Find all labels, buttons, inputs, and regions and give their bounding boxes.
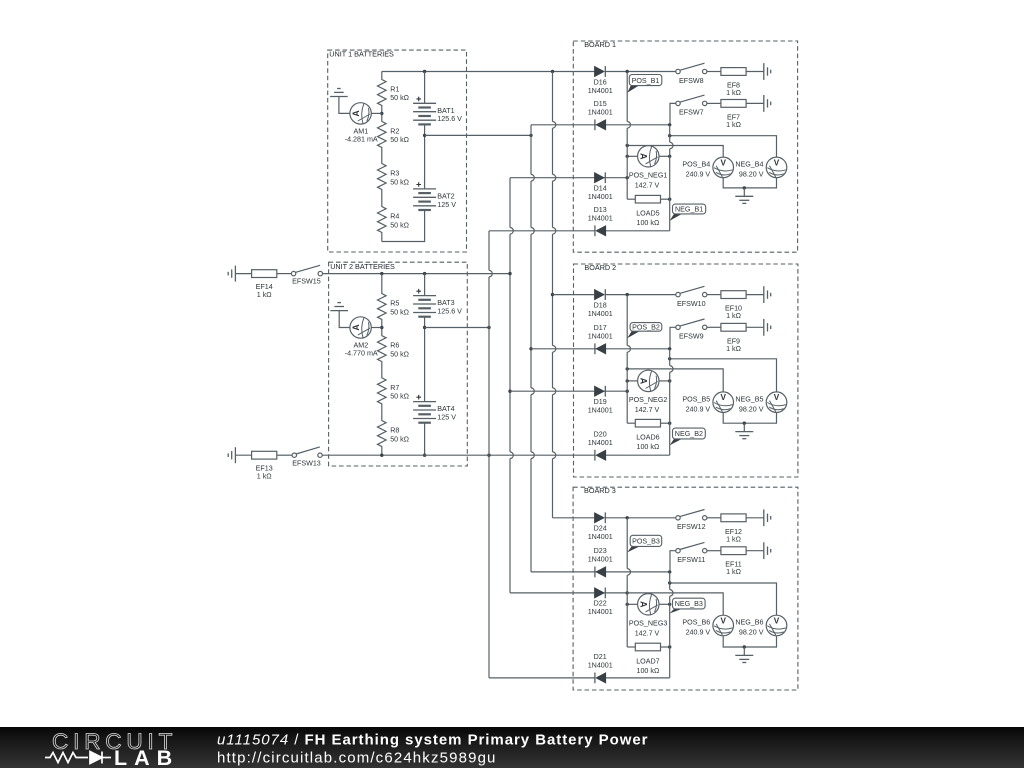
svg-text:1N4001: 1N4001 — [588, 310, 613, 318]
junction x2 NEG board2 — [668, 357, 671, 360]
wire POS net board3 — [627, 593, 723, 615]
wire D14 row — [510, 177, 595, 179]
junction unit1 mid tap — [423, 134, 426, 137]
junction x1 POS board2 — [626, 367, 629, 370]
wire BAT3 bottom — [424, 317, 426, 402]
svg-text:125 V: 125 V — [437, 201, 456, 209]
battery BAT1 — [413, 72, 462, 125]
svg-text:1 kΩ: 1 kΩ — [257, 472, 273, 480]
junction voltmeter ground board1 — [743, 186, 746, 189]
switch EFSW9 — [676, 319, 707, 341]
wire D18 row — [605, 294, 627, 296]
wire D15 row — [531, 124, 595, 126]
wire POS_B4 bottom — [723, 178, 744, 188]
ground EF9 — [764, 319, 771, 336]
svg-text:BAT2: BAT2 — [437, 193, 454, 201]
svg-text:V: V — [720, 617, 726, 626]
svg-text:R4: R4 — [390, 213, 399, 221]
ammeter POS_NEG1 — [638, 146, 659, 167]
resistor EF12 — [707, 514, 764, 543]
resistor EF14 — [235, 270, 291, 299]
switch EFSW12 — [676, 510, 707, 532]
wire unit1 top to bus — [467, 71, 595, 73]
wire BAT1 bottom — [424, 124, 426, 188]
diode D22 — [588, 588, 613, 617]
svg-text:A: A — [639, 378, 649, 385]
svg-text:125.6 V: 125.6 V — [437, 308, 462, 316]
svg-text:1 kΩ: 1 kΩ — [726, 345, 742, 353]
svg-text:R2: R2 — [390, 127, 399, 135]
wire D18 to switch — [627, 294, 676, 296]
svg-text:1 kΩ: 1 kΩ — [257, 291, 273, 299]
wire board1 inner-left vertical — [627, 72, 630, 200]
board 1 box — [573, 40, 797, 252]
wire D16 to switch — [627, 71, 676, 73]
svg-text:NEG_B2: NEG_B2 — [675, 430, 703, 438]
svg-text:LAB: LAB — [114, 746, 179, 768]
junction BAT3 top — [423, 272, 426, 275]
svg-text:R1: R1 — [390, 86, 399, 94]
svg-text:POS_B4: POS_B4 — [682, 161, 710, 169]
wire AM1 right — [371, 112, 382, 114]
ground EF14 — [228, 266, 235, 282]
diode D14 — [588, 172, 613, 201]
svg-text:D17: D17 — [594, 324, 607, 332]
svg-text:50 kΩ: 50 kΩ — [390, 393, 409, 401]
board 2 box — [574, 263, 798, 477]
battery BAT2 — [413, 182, 456, 210]
svg-text:EFSW7: EFSW7 — [679, 109, 704, 117]
svg-text:BOARD 3: BOARD 3 — [584, 486, 616, 495]
ammeter AM1 — [345, 103, 378, 144]
svg-text:50 kΩ: 50 kΩ — [390, 136, 409, 144]
svg-text:EFSW12: EFSW12 — [677, 523, 706, 531]
wire D23 row field — [531, 571, 595, 573]
wire unit1 mid tap — [425, 134, 531, 136]
ground voltmeters board3 — [735, 647, 753, 663]
junction board1 x1 top — [626, 70, 629, 73]
resistor LOAD7 — [627, 643, 670, 675]
resistor R8 — [378, 412, 410, 455]
junction R1-R2-AM1 — [380, 112, 383, 115]
wire POS_B5 bottom — [723, 413, 744, 424]
ground AM1 — [330, 89, 348, 106]
svg-text:50 kΩ: 50 kΩ — [390, 350, 409, 358]
wire POS_NEG2 right — [659, 380, 670, 382]
ground EF8 — [764, 63, 771, 80]
svg-text:100 kΩ: 100 kΩ — [636, 443, 659, 451]
svg-text:142.7 V: 142.7 V — [635, 630, 660, 638]
wire D24 to switch — [627, 517, 676, 519]
wire D21 row — [606, 677, 670, 679]
svg-text:EFSW11: EFSW11 — [677, 556, 705, 564]
wire board3 inner-left vertical — [627, 518, 630, 647]
svg-text:POS_NEG2: POS_NEG2 — [629, 396, 668, 404]
wire board1 inner-right vertical — [670, 125, 673, 231]
junction R5 top — [380, 272, 383, 275]
svg-text:50 kΩ: 50 kΩ — [390, 435, 409, 443]
svg-text:R3: R3 — [390, 170, 399, 178]
wire board3 inner-right vertical — [670, 572, 673, 678]
svg-text:-4.770 mA: -4.770 mA — [345, 350, 378, 358]
wire D24 row field — [553, 517, 595, 519]
svg-text:1N4001: 1N4001 — [588, 333, 613, 341]
wire bus from unit1 mid — [531, 125, 534, 572]
wire bus from unit1 top — [553, 72, 556, 518]
svg-text:1N4001: 1N4001 — [588, 556, 613, 564]
svg-text:R8: R8 — [390, 427, 399, 435]
junction x1 meter board1 — [626, 155, 629, 158]
resistor LOAD5 — [627, 195, 670, 227]
svg-text:50 kΩ: 50 kΩ — [390, 178, 409, 186]
junction x1 D14 — [626, 176, 629, 179]
svg-text:142.7 V: 142.7 V — [635, 182, 660, 190]
ground AM2 — [330, 303, 348, 320]
junction BAT4 bottom — [423, 454, 426, 457]
wire D18 row field — [553, 294, 595, 296]
resistor R6 — [378, 328, 410, 370]
node NEG_B1 — [670, 204, 706, 221]
junction R8 bottom — [380, 454, 383, 457]
ground EF10 — [764, 286, 771, 303]
wire AM1 left — [339, 105, 350, 113]
diode D15 — [588, 100, 613, 130]
svg-text:D19: D19 — [594, 398, 607, 406]
diode D24 — [588, 512, 613, 541]
resistor EF9 — [707, 323, 764, 352]
ground EF7 — [764, 95, 771, 112]
diode D18 — [588, 289, 613, 318]
switch EFSW7 — [676, 95, 707, 117]
svg-text:V: V — [774, 158, 780, 167]
svg-text:1N4001: 1N4001 — [588, 193, 613, 201]
svg-text:u1115074 / FH Earthing system: u1115074 / FH Earthing system Primary Ba… — [217, 732, 648, 749]
svg-text:A: A — [351, 324, 361, 331]
resistor EF13 — [235, 451, 292, 480]
junction bus unit2 mid — [487, 326, 490, 329]
junction x2 NEG board3 — [668, 581, 671, 584]
svg-text:EFSW9: EFSW9 — [679, 333, 704, 341]
diode D17 — [588, 324, 613, 354]
diode D13 — [588, 206, 613, 236]
switch EFSW15 — [291, 265, 322, 285]
svg-text:D21: D21 — [594, 653, 607, 661]
svg-text:POS_B6: POS_B6 — [682, 619, 710, 627]
svg-text:D13: D13 — [594, 206, 607, 214]
svg-text:50 kΩ: 50 kΩ — [390, 308, 409, 316]
node POS_B3 — [627, 535, 662, 552]
wire D13 row — [489, 230, 595, 232]
svg-text:POS_B2: POS_B2 — [632, 324, 660, 332]
voltmeter POS_B4 — [682, 157, 733, 179]
board 3 box — [573, 486, 798, 690]
junction x1 D19 — [626, 390, 629, 393]
junction bus unit1 top — [551, 70, 554, 73]
wire D17 row — [595, 348, 670, 350]
ammeter POS_NEG3 — [638, 594, 659, 615]
svg-text:1N4001: 1N4001 — [588, 87, 613, 95]
svg-text:D18: D18 — [594, 301, 607, 309]
resistor LOAD6 — [627, 419, 670, 451]
junction x1 D22 — [626, 591, 629, 594]
ammeter AM2 — [345, 317, 378, 358]
resistor R3 — [378, 156, 410, 198]
junction x1 POS board1 — [626, 144, 629, 147]
wire POS_B6 bottom — [723, 636, 744, 647]
node POS_B2 — [627, 323, 662, 339]
ground EF11 — [764, 542, 771, 559]
svg-text:BAT4: BAT4 — [437, 405, 454, 413]
junction x2 meter board3 — [668, 603, 671, 606]
junction bus D19 — [508, 390, 511, 393]
svg-text:LOAD7: LOAD7 — [636, 657, 659, 665]
resistor EF11 — [707, 547, 764, 576]
wire D13 row — [606, 230, 670, 232]
svg-text:UNIT 1 BATTERIES: UNIT 1 BATTERIES — [329, 49, 394, 58]
svg-text:240.9 V: 240.9 V — [686, 171, 711, 179]
resistor EF10 — [707, 291, 764, 320]
junction voltmeter ground board3 — [743, 645, 746, 648]
wire D19 row field — [510, 390, 595, 392]
unit 1 batteries box — [328, 49, 467, 252]
svg-text:240.9 V: 240.9 V — [686, 629, 711, 637]
junction board3 x1 top — [626, 516, 629, 519]
diode D23 — [588, 547, 613, 577]
resistor R4 — [378, 198, 410, 242]
wire bus from unit2 top — [510, 178, 513, 593]
svg-text:240.9 V: 240.9 V — [686, 405, 711, 413]
svg-text:1N4001: 1N4001 — [588, 407, 613, 415]
voltmeter POS_B5 — [682, 392, 733, 413]
svg-text:NEG_B6: NEG_B6 — [735, 619, 763, 627]
wire D15 row — [595, 124, 670, 126]
svg-text:R5: R5 — [390, 300, 399, 308]
wire POS_NEG3 right — [659, 603, 670, 605]
svg-text:100 kΩ: 100 kΩ — [636, 219, 659, 227]
svg-text:EF14: EF14 — [256, 283, 273, 291]
junction board2 x1 top — [626, 293, 629, 296]
svg-text:A: A — [639, 601, 649, 608]
switch EFSW11 — [676, 542, 707, 564]
svg-text:D22: D22 — [594, 600, 607, 608]
svg-text:-4.281 mA: -4.281 mA — [345, 135, 378, 143]
svg-text:D15: D15 — [594, 100, 607, 108]
wire unit2 mid tap — [425, 327, 489, 329]
svg-text:EFSW13: EFSW13 — [292, 459, 321, 467]
node POS_B1 — [627, 75, 662, 93]
wire D17 row field — [531, 348, 595, 350]
wire board2 inner-left vertical — [627, 295, 630, 424]
junction x2 D23 — [668, 570, 671, 573]
wire POS_NEG1 right — [659, 155, 670, 157]
svg-text:BOARD 2: BOARD 2 — [584, 263, 616, 272]
svg-text:1 kΩ: 1 kΩ — [726, 121, 742, 129]
diode D20 — [588, 431, 613, 461]
diode D21 — [588, 653, 613, 683]
junction x2 LOAD6 — [668, 422, 671, 425]
wire D22 row field — [510, 592, 595, 594]
ground EF12 — [764, 509, 771, 526]
svg-text:98.20 V: 98.20 V — [739, 629, 764, 637]
junction bus unit1 mid — [529, 134, 532, 137]
svg-text:LOAD5: LOAD5 — [636, 210, 659, 218]
unit 2 batteries box — [329, 262, 468, 466]
wire NEG_B5 bottom — [744, 413, 776, 424]
svg-text:1 kΩ: 1 kΩ — [726, 568, 742, 576]
svg-text:1N4001: 1N4001 — [588, 662, 613, 670]
footer bar — [0, 727, 1024, 768]
resistor R2 — [378, 113, 410, 155]
svg-text:98.20 V: 98.20 V — [739, 171, 764, 179]
junction x1 meter board2 — [626, 379, 629, 382]
wire D24 row — [605, 517, 627, 519]
wire POS_NEG3 left — [627, 603, 637, 605]
svg-text:D20: D20 — [594, 431, 607, 439]
svg-text:100 kΩ: 100 kΩ — [636, 667, 659, 675]
svg-text:V: V — [774, 393, 780, 402]
wire D19 row — [595, 390, 628, 392]
junction x2 NEG board1 — [668, 134, 671, 137]
svg-text:EFSW8: EFSW8 — [679, 77, 704, 85]
svg-text:NEG_B5: NEG_B5 — [735, 395, 763, 403]
svg-text:A: A — [639, 153, 649, 160]
wire board2 inner-right vertical — [670, 349, 673, 455]
svg-text:POS_B5: POS_B5 — [682, 395, 710, 403]
wire EFSW13 to D20 — [322, 454, 595, 456]
junction x2 LOAD5 — [668, 198, 671, 201]
svg-text:1 kΩ: 1 kΩ — [726, 312, 742, 320]
wire D20 row — [606, 454, 670, 456]
wire BAT4 bottom — [424, 423, 426, 456]
svg-text:1N4001: 1N4001 — [588, 109, 613, 117]
svg-text:50 kΩ: 50 kΩ — [390, 94, 409, 102]
wire POS_NEG2 left — [627, 380, 637, 382]
junction R5-R6-AM2 — [380, 326, 383, 329]
junction x2 LOAD7 — [668, 645, 671, 648]
wire bus from unit2 mid — [489, 231, 492, 678]
svg-text:V: V — [774, 617, 780, 626]
svg-text:R6: R6 — [390, 342, 399, 350]
svg-text:142.7 V: 142.7 V — [635, 406, 660, 414]
switch EFSW10 — [676, 286, 707, 308]
svg-text:UNIT 2 BATTERIES: UNIT 2 BATTERIES — [330, 262, 395, 271]
junction bus EF13 — [487, 454, 490, 457]
junction x2 D15 — [668, 123, 671, 126]
voltmeter POS_B6 — [682, 615, 733, 637]
voltmeter NEG_B5 — [735, 392, 786, 413]
wire BAT2 bottom — [382, 210, 425, 242]
junction x2 D17 — [668, 347, 671, 350]
svg-text:125.6 V: 125.6 V — [437, 115, 462, 123]
svg-text:1N4001: 1N4001 — [588, 439, 613, 447]
wire unit1 top — [382, 71, 467, 73]
wire AM2 right — [371, 327, 382, 329]
svg-text:D16: D16 — [594, 78, 607, 86]
switch EFSW8 — [676, 63, 707, 85]
resistor R5 — [378, 286, 410, 328]
junction BAT1 top — [423, 70, 426, 73]
svg-text:NEG_B1: NEG_B1 — [675, 206, 703, 214]
battery BAT3 — [413, 274, 462, 317]
svg-text:POS_B3: POS_B3 — [632, 538, 660, 546]
svg-text:NEG_B3: NEG_B3 — [675, 600, 703, 608]
svg-text:V: V — [720, 158, 726, 167]
junction bus D18 — [551, 293, 554, 296]
svg-text:EF13: EF13 — [256, 464, 273, 472]
voltmeter NEG_B6 — [735, 615, 786, 637]
wire EFSW7 stub — [670, 103, 676, 123]
wire D16 row — [605, 71, 627, 73]
resistor EF8 — [707, 68, 764, 97]
svg-text:BOARD 1: BOARD 1 — [584, 40, 616, 49]
svg-text:50 kΩ: 50 kΩ — [390, 221, 409, 229]
svg-text:V: V — [720, 393, 726, 402]
junction x1 meter board3 — [626, 603, 629, 606]
svg-text:1N4001: 1N4001 — [588, 608, 613, 616]
battery BAT4 — [413, 395, 456, 423]
svg-text:D14: D14 — [594, 185, 607, 193]
wire POS net board2 — [627, 369, 723, 392]
wire POS net board1 — [627, 146, 723, 158]
diode D16 — [588, 66, 613, 95]
ammeter POS_NEG2 — [638, 370, 659, 391]
svg-text:LOAD6: LOAD6 — [636, 434, 659, 442]
ground EF13 — [228, 447, 235, 463]
junction bus EFSW15 — [508, 272, 511, 275]
svg-text:D24: D24 — [594, 525, 607, 533]
node NEG_B2 — [670, 428, 706, 445]
resistor R1 — [378, 72, 410, 114]
svg-text:1N4001: 1N4001 — [588, 215, 613, 223]
wire NEG net board1 — [670, 136, 777, 157]
junction x2 meter board1 — [668, 155, 671, 158]
svg-text:POS_NEG3: POS_NEG3 — [629, 620, 668, 628]
svg-text:1N4001: 1N4001 — [588, 533, 613, 541]
wire NEG net board2 — [670, 359, 777, 392]
svg-text:A: A — [351, 110, 361, 117]
junction voltmeter ground board2 — [743, 422, 746, 425]
ground voltmeters board1 — [735, 188, 753, 204]
svg-text:AM2: AM2 — [354, 342, 369, 350]
junction bus D17 — [529, 347, 532, 350]
resistor R7 — [378, 370, 410, 412]
CircuitLab logo resistor-diode glyph — [45, 752, 111, 764]
switch EFSW13 — [292, 447, 322, 467]
wire D22 row — [595, 592, 628, 594]
wire NEG_B4 bottom — [744, 178, 776, 188]
wire POS_NEG1 left — [627, 155, 637, 157]
junction x2 meter board2 — [668, 379, 671, 382]
svg-text:125 V: 125 V — [437, 414, 456, 422]
svg-text:1 kΩ: 1 kΩ — [726, 535, 742, 543]
node NEG_B3 — [670, 598, 705, 613]
svg-text:AM1: AM1 — [354, 128, 369, 136]
diode D19 — [588, 386, 613, 415]
wire D23 row — [595, 571, 670, 573]
wire D21 row field — [489, 677, 595, 679]
svg-text:POS_B1: POS_B1 — [632, 77, 660, 85]
svg-text:98.20 V: 98.20 V — [739, 405, 764, 413]
svg-text:BAT1: BAT1 — [437, 107, 454, 115]
svg-text:R7: R7 — [390, 384, 399, 392]
svg-text:NEG_B4: NEG_B4 — [735, 161, 763, 169]
svg-text:POS_NEG1: POS_NEG1 — [629, 172, 668, 180]
ground voltmeters board2 — [735, 423, 753, 439]
resistor EF7 — [707, 100, 764, 129]
junction unit2 mid tap — [423, 326, 426, 329]
wire NEG net board3 — [670, 583, 777, 615]
svg-text:D23: D23 — [594, 547, 607, 555]
